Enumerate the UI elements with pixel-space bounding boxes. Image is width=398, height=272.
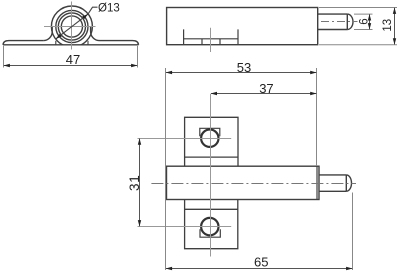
svg-text:65: 65 [254, 255, 268, 270]
svg-text:6: 6 [359, 18, 371, 24]
svg-text:31: 31 [127, 174, 142, 191]
svg-text:13: 13 [382, 19, 394, 32]
svg-text:Ø13: Ø13 [98, 2, 120, 14]
svg-text:37: 37 [259, 81, 273, 96]
svg-text:47: 47 [66, 52, 80, 67]
svg-text:53: 53 [237, 60, 251, 75]
